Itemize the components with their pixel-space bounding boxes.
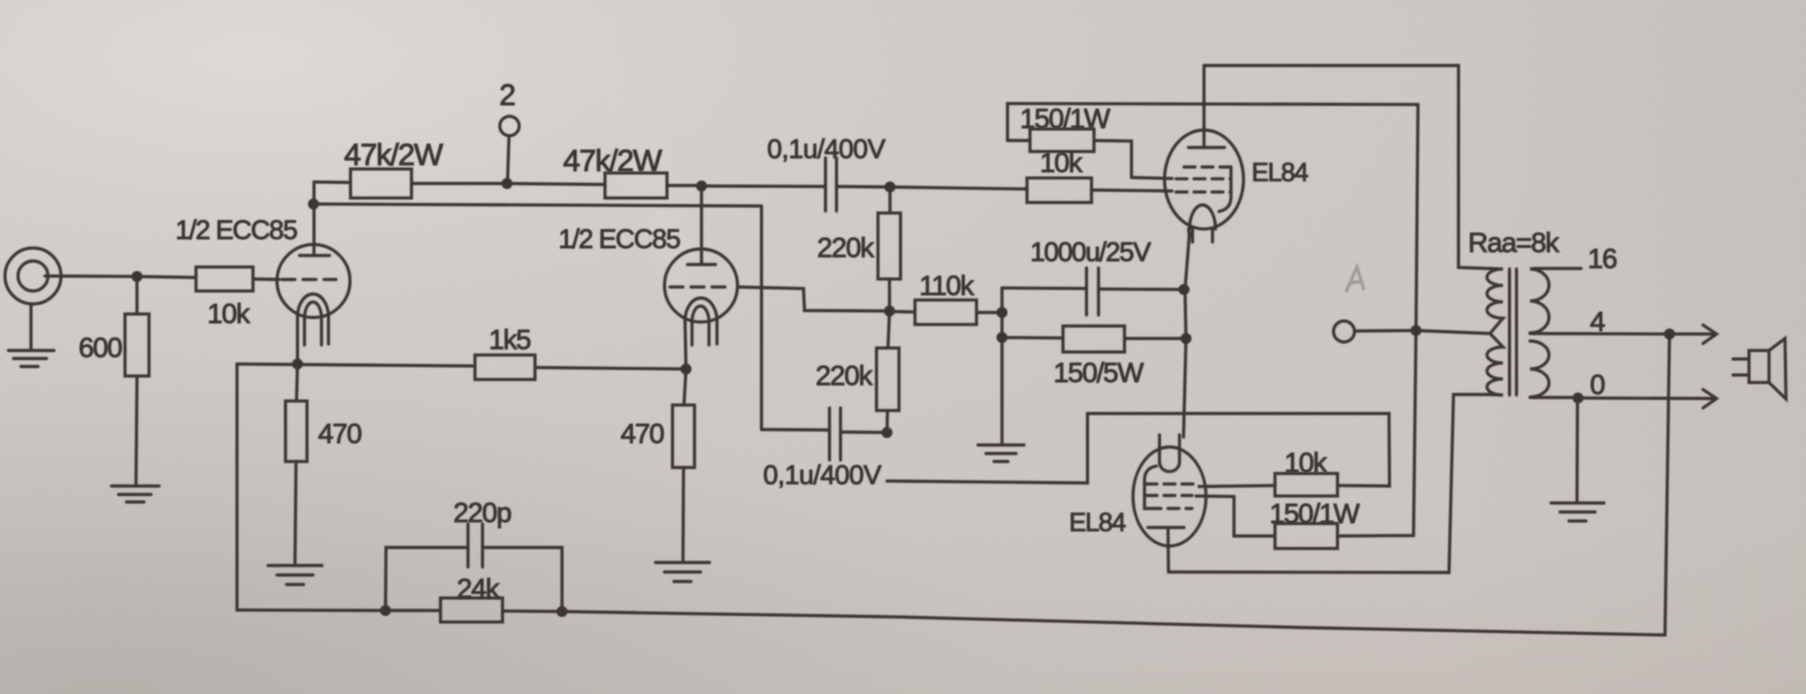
resistor R10 110k (890, 310, 916, 314)
capacitor C4 220p (386, 548, 468, 611)
V2 g3-cathode tie (1219, 167, 1231, 212)
triode V1a 1/2 ECC85 (277, 245, 350, 318)
node junction V1b anode (696, 181, 707, 192)
node junction divider (884, 306, 895, 317)
V1a anode (300, 254, 330, 257)
wire R4 to V1b anode node (667, 184, 702, 187)
node junction R11 right (1181, 333, 1192, 344)
wire tap 4 (1530, 332, 1670, 336)
wire tap to C2 (762, 428, 830, 432)
V1b cathode lead (685, 319, 686, 369)
ground (0 tap) (1551, 501, 1604, 504)
pentode V2 EL84 (1165, 130, 1244, 229)
pencil mark A (1346, 267, 1364, 292)
wire node to R2 (137, 277, 196, 278)
arrow output 4 (1703, 325, 1717, 344)
svg-text:4: 4 (1590, 306, 1605, 337)
resistor R9 220k (888, 311, 890, 348)
node junction C1/R8 (885, 182, 896, 193)
V3 g1 (1146, 482, 1196, 485)
svg-text:EL84: EL84 (1252, 157, 1309, 187)
V1b grid wire (738, 287, 890, 311)
HT rail wire (314, 180, 351, 184)
svg-text:150/5W: 150/5W (1053, 357, 1144, 388)
svg-text:10k: 10k (1284, 447, 1328, 478)
cathode net wire (237, 364, 475, 366)
V2 g2 (1176, 177, 1231, 180)
wire node to C1 (702, 184, 826, 188)
node junction centre tap (1411, 325, 1422, 336)
wire V3 anode to transformer (1169, 395, 1489, 573)
V1a grid (282, 278, 336, 281)
wire B+ to centre tap (1355, 329, 1417, 333)
wire R3 to node 2 (412, 182, 508, 185)
node junction C2/R9 (882, 427, 893, 438)
node junction HT (502, 178, 513, 189)
V3 cathode (1158, 435, 1161, 462)
triode V1b 1/2 ECC85 (665, 249, 738, 322)
ground (input jack) (9, 349, 55, 352)
svg-text:470: 470 (318, 418, 362, 449)
svg-text:1/2 ECC85: 1/2 ECC85 (175, 215, 296, 245)
wire feedback to output (562, 612, 1665, 636)
resistor R7 470 (684, 369, 686, 405)
V1a cathode lead (296, 315, 299, 364)
transformer T1 core (1508, 269, 1511, 395)
V3 g2 (1146, 494, 1192, 497)
V2 anode (1189, 146, 1225, 149)
resistor R16 24k (441, 598, 503, 622)
resistor R3 47k/2W (351, 169, 412, 198)
V2 g3 (1184, 165, 1231, 168)
capacitor C1 0,1u/400V (824, 158, 827, 211)
speaker LS1 (1749, 351, 1769, 383)
node junction V1a cathode (292, 359, 303, 370)
arrow output 0 (1703, 390, 1717, 409)
svg-text:47k/2W: 47k/2W (344, 137, 444, 172)
svg-text:EL84: EL84 (1069, 507, 1126, 537)
svg-text:0,1u/400V: 0,1u/400V (767, 134, 885, 164)
ground (R6 470) (268, 564, 322, 567)
svg-text:10k: 10k (207, 298, 251, 329)
svg-text:220k: 220k (817, 232, 875, 263)
svg-text:220p: 220p (453, 497, 511, 528)
node junction input (132, 271, 143, 282)
terminal B+ (1334, 321, 1355, 342)
V2 g1 (1176, 190, 1231, 193)
wire C2 to node (841, 430, 888, 434)
wire V1a anode tap (308, 199, 319, 210)
svg-text:470: 470 (620, 418, 664, 449)
svg-text:2: 2 (499, 79, 515, 112)
wire tap 16 (1535, 267, 1581, 270)
terminal 2 (500, 116, 519, 135)
resistor R6 470 (297, 364, 298, 401)
svg-text:600: 600 (78, 332, 122, 363)
capacitor C2 0,1u/400V (828, 408, 831, 460)
transformer T1 primary (1487, 269, 1503, 334)
resistor R13 150/1W (1006, 104, 1009, 141)
svg-text:0,1u/400V: 0,1u/400V (763, 460, 881, 490)
input jack J1 (5, 248, 61, 304)
resistor R1 600 (135, 277, 138, 315)
wire C1 to node (837, 185, 891, 189)
V1a cathode (298, 294, 329, 317)
pentode V3 EL84 (1133, 447, 1206, 546)
wire R2 to V1a grid (253, 277, 279, 281)
svg-text:Raa=8k: Raa=8k (1468, 227, 1560, 258)
node junction V1b cathode (681, 364, 692, 375)
capacitor C3 1000u/25V (1002, 288, 1087, 313)
wire ground riser (1000, 338, 1003, 445)
V2 cathode (1190, 205, 1216, 229)
resistor R14 10k (1275, 474, 1338, 497)
V3 g3-cathode tie (1145, 466, 1157, 509)
resistor R2 10k (196, 267, 253, 291)
wire V2 anode to transformer (1204, 66, 1489, 269)
svg-text:150/1W: 150/1W (1020, 103, 1111, 134)
svg-text:220k: 220k (816, 360, 874, 391)
resistor R11 150/5W (1000, 313, 1003, 338)
svg-text:150/1W: 150/1W (1269, 498, 1360, 529)
V1b anode (688, 263, 716, 266)
svg-text:110k: 110k (919, 270, 975, 301)
wire screen rail (1008, 104, 1419, 105)
svg-text:1k5: 1k5 (489, 324, 531, 355)
ground (R1 600) (112, 484, 160, 487)
ground (R7 470) (656, 561, 710, 564)
resistor R12 10k (890, 187, 1027, 189)
wire feedback bottom (237, 608, 441, 612)
V1b cathode (685, 298, 717, 321)
svg-text:0: 0 (1590, 369, 1605, 400)
wire tap down (760, 206, 763, 430)
resistor R4 47k/2W (605, 173, 667, 198)
resistor R8 220k (888, 187, 891, 213)
node junction C3 right (1179, 284, 1190, 295)
ground (divider) (978, 443, 1024, 446)
wire 0 tap to ground (1575, 398, 1579, 501)
wire jack to node (45, 274, 137, 278)
V3 anode (1148, 526, 1184, 529)
wire node2 to R4 (507, 184, 605, 185)
svg-text:10k: 10k (1040, 147, 1084, 178)
svg-text:24k: 24k (457, 573, 501, 604)
wire jack stem (29, 304, 32, 349)
wire R5 to V1b cathode (535, 368, 686, 370)
svg-text:1000u/25V: 1000u/25V (1030, 237, 1151, 267)
wire tap 0 (1530, 396, 1578, 399)
svg-text:16: 16 (1588, 243, 1617, 274)
V1b grid (670, 285, 731, 288)
V3 g3 (1150, 507, 1192, 510)
wire cathode bus EL84 (1184, 233, 1190, 437)
node junction R10 right (997, 307, 1008, 318)
resistor R15 150/1W (1275, 524, 1338, 549)
wire cathode corner down (235, 364, 238, 610)
resistor R5 1k5 (475, 355, 535, 380)
transformer T1 secondary (1530, 269, 1549, 334)
svg-text:47k/2W: 47k/2W (563, 143, 663, 178)
svg-text:1/2 ECC85: 1/2 ECC85 (558, 224, 679, 254)
